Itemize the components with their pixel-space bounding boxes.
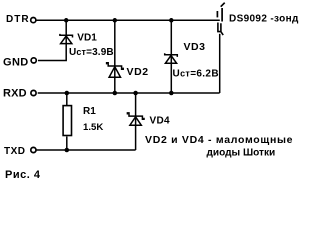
node junction RXD rail / VD3 [169, 91, 174, 96]
wire DTR top rail [36, 19, 220, 21]
svg-text:DTR: DTR [6, 14, 30, 25]
svg-text:VD2 и VD4 - маломощные: VD2 и VD4 - маломощные [145, 134, 293, 146]
node junction RXD rail / VD2 [113, 91, 118, 96]
terminal DTR [31, 18, 36, 23]
terminal RXD [31, 90, 36, 95]
svg-text:RXD: RXD [3, 88, 27, 100]
svg-text:TXD: TXD [4, 146, 26, 157]
wire VD1 branch down to GND corner [38, 20, 66, 60]
zener diode VD1 [60, 34, 73, 44]
svg-text:GND: GND [3, 56, 29, 68]
wire TXD rail [36, 149, 135, 151]
wire RXD rail [38, 92, 220, 94]
svg-text:R1: R1 [83, 106, 96, 117]
svg-text:Uст=3.9В: Uст=3.9В [69, 47, 114, 58]
svg-text:VD1: VD1 [77, 32, 97, 43]
svg-text:VD3: VD3 [184, 41, 206, 53]
wire VD2 branch [114, 20, 116, 93]
resistor R1 body [63, 106, 71, 136]
wire R1 top lead [66, 93, 68, 106]
node junction DTR rail / VD1 [64, 18, 69, 23]
node junction TXD rail / R1 [65, 148, 70, 153]
wire VD3 branch [170, 20, 172, 93]
connector DS9092 probe outer contact [221, 3, 225, 22]
svg-text:диоды Шотки: диоды Шотки [207, 147, 276, 158]
svg-text:1.5K: 1.5K [83, 122, 103, 133]
node junction RXD rail / R1 [65, 91, 70, 96]
connector DS9092 probe lower contact [218, 23, 223, 36]
node junction RXD rail / VD4 [133, 91, 138, 96]
zener diode VD3 [165, 53, 178, 63]
node junction DTR rail / VD3 [169, 18, 174, 23]
svg-text:Рис. 4: Рис. 4 [5, 169, 41, 181]
svg-text:VD2: VD2 [127, 66, 149, 78]
wire R1 bottom lead [66, 137, 68, 151]
svg-text:VD4: VD4 [150, 116, 170, 127]
connector DS9092 probe center pin [216, 11, 218, 17]
wire probe down lead [219, 34, 221, 93]
schottky diode VD2 [107, 63, 124, 78]
terminal TXD [31, 147, 36, 152]
node junction DTR rail / VD2 [113, 18, 118, 23]
terminal GND [31, 58, 36, 63]
svg-text:DS9092 -зонд: DS9092 -зонд [229, 14, 299, 25]
wire VD4 branch [135, 93, 137, 150]
schottky diode VD4 [127, 113, 144, 125]
svg-text:Uст=6.2В: Uст=6.2В [173, 69, 219, 80]
